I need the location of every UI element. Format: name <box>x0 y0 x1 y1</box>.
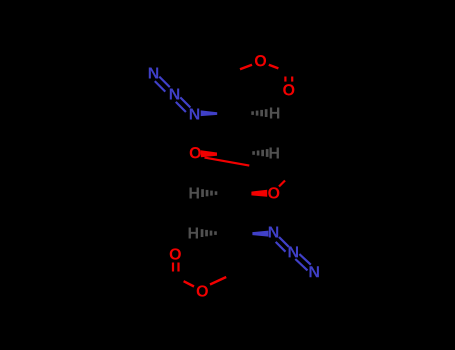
carbonyl double bond C1'=O2 red segments <box>284 77 286 82</box>
azide nitrogen N2 (top middle) <box>170 88 179 99</box>
wedge bond C3-O3 red half <box>201 150 217 157</box>
wire bond O3-acetal C red half <box>205 158 250 166</box>
ester oxygen O6 (bottom benzoate) <box>197 285 208 296</box>
carbonyl oxygen O2 (top benzoate) <box>283 84 294 95</box>
carbonyl double bond C2'=O5 red segments <box>172 263 174 272</box>
double bond N5=N6 <box>299 254 310 265</box>
azide nitrogen N6 (bottom terminal) <box>309 266 318 277</box>
azide nitrogen N1 (top terminal) <box>149 67 158 78</box>
hash bond C4-H4 gray half <box>201 189 217 197</box>
double bond N4=N5 <box>279 237 289 247</box>
hydrogen H4 <box>189 187 198 198</box>
methylene-acetal oxygen O4 <box>268 187 279 198</box>
hydrogen H3 <box>269 147 278 158</box>
azide nitrogen N3 (attached to C2) <box>190 108 199 119</box>
wire bond O4-acetal C red half <box>279 181 285 187</box>
hydrogen H2 <box>270 107 279 118</box>
ring oxygen O3 <box>190 147 201 158</box>
azide nitrogen N4 (attached to C5) <box>269 226 278 237</box>
hash bond C3-H3 gray half <box>252 149 268 157</box>
carbonyl oxygen O5 (bottom benzoate) <box>170 248 181 259</box>
wedge bond C5-N4 blue half <box>252 231 268 237</box>
hydrogen H5 <box>189 227 198 238</box>
wedge bond C2-N3 blue half <box>201 110 218 116</box>
wire bond C2'-O6 red half <box>184 281 194 286</box>
wire bond C1-O1 red half <box>240 65 252 70</box>
ester oxygen O1 (top benzoate) <box>255 55 266 66</box>
hash bond C2-H2 gray half <box>251 109 267 117</box>
wedge bond C4-O4 red half <box>251 190 267 197</box>
double bond N1=N2 <box>159 77 170 88</box>
wire bond O1-C1' red half <box>269 65 279 69</box>
wire bond O6-C6 red half <box>210 277 226 285</box>
hash bond C5-H5 gray half <box>201 229 217 237</box>
azide nitrogen N5 (bottom middle) <box>289 246 298 257</box>
double bond N2=N3 <box>180 97 190 107</box>
